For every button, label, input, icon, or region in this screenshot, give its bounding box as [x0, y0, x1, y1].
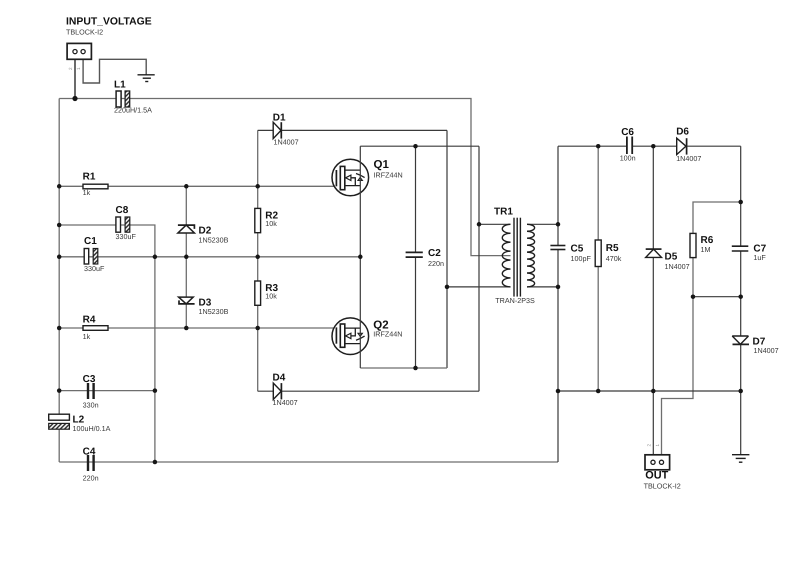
wire D1 row y=130.4	[258, 129, 447, 131]
wire R1 row / Q1 gate row y=186.3	[59, 185, 336, 187]
svg-text:C8: C8	[116, 205, 129, 216]
svg-text:100uH/0.1A: 100uH/0.1A	[73, 424, 111, 433]
wire zener chain vertical x=186.3	[185, 186, 187, 328]
diode D7	[732, 336, 749, 344]
capacitor C8	[116, 217, 130, 232]
svg-text:C4: C4	[83, 446, 96, 457]
junction C4 row / left branch	[153, 460, 158, 465]
wire C8 row y=225 with corner down at x=154.9	[59, 225, 155, 257]
svg-text:1N4007: 1N4007	[274, 138, 299, 147]
svg-text:OUT: OUT	[645, 470, 668, 482]
svg-text:Q1: Q1	[374, 159, 390, 171]
svg-text:1uF: 1uF	[753, 253, 766, 262]
wire right bus x=558 through C5	[557, 146, 559, 462]
inductor L2	[49, 414, 70, 429]
junction TR secondary top	[556, 222, 561, 227]
junction C3 row / left branch	[153, 388, 158, 393]
junction R2 top / R1 row	[255, 184, 260, 189]
svg-text:2: 2	[68, 67, 73, 70]
wire input terminal pin 1 to ground	[83, 54, 146, 83]
svg-text:1k: 1k	[83, 188, 91, 197]
transistor Q2	[332, 257, 369, 368]
wire Q2 source row y=367.2	[360, 367, 447, 369]
svg-text:330n: 330n	[83, 401, 99, 410]
ground input	[138, 75, 155, 82]
junction rail-C8 row	[57, 223, 62, 228]
svg-text:1: 1	[76, 67, 81, 70]
junction R2-R3 / C1 row	[255, 255, 260, 260]
junction D5 top	[651, 144, 656, 149]
diode D3 zener	[179, 297, 195, 304]
wire C4 row y=462 to corner x=558	[59, 461, 558, 463]
resistor R6	[690, 233, 696, 257]
junction C2 top / Q1 drain row	[413, 144, 418, 149]
junction TR primary bottom	[445, 285, 450, 290]
wire ground output stem	[740, 391, 742, 455]
svg-text:1N4007: 1N4007	[273, 398, 298, 407]
terminal block J2 OUT	[645, 455, 670, 470]
svg-text:R4: R4	[83, 314, 96, 325]
wire transformer primary bottom lead	[447, 286, 511, 288]
svg-text:100pF: 100pF	[571, 254, 592, 263]
junction C8 branch / C1 row	[153, 255, 158, 260]
wire top +V rail from left rail corner through L1 to transformer center tap	[59, 99, 510, 256]
svg-text:10k: 10k	[265, 291, 277, 300]
svg-text:C2: C2	[428, 248, 441, 259]
svg-text:1N4007: 1N4007	[754, 346, 779, 355]
wire R6 bottom jog to OUT pin 1	[662, 258, 694, 460]
svg-text:L1: L1	[114, 80, 126, 91]
diode D1	[273, 122, 281, 138]
svg-text:220n: 220n	[428, 259, 444, 268]
junction TR secondary bottom	[556, 285, 561, 290]
svg-text:1N4007: 1N4007	[665, 262, 690, 271]
svg-text:1N5230B: 1N5230B	[199, 307, 229, 316]
diode D5	[646, 249, 662, 257]
svg-text:1N4007: 1N4007	[676, 154, 701, 163]
wire transformer secondary top lead	[527, 223, 558, 225]
wire C1 row y=256.8 to Q1 source	[59, 256, 360, 258]
svg-text:1k: 1k	[83, 332, 91, 341]
svg-text:330uF: 330uF	[116, 232, 137, 241]
svg-text:1M: 1M	[701, 245, 711, 254]
junction D2 top / R1 row	[184, 184, 189, 189]
wire transformer primary top lead	[479, 223, 511, 225]
transformer TR1	[502, 218, 534, 297]
capacitor C7	[732, 246, 749, 251]
svg-text:10k: 10k	[265, 219, 277, 228]
junction C7 bottom / link row	[738, 294, 743, 299]
capacitor C6	[627, 137, 632, 155]
svg-text:470k: 470k	[606, 254, 622, 263]
wire Q1 drain row y=146.2	[360, 145, 479, 147]
wire transformer secondary bottom lead	[527, 286, 558, 288]
junction Q1 source / C1 row	[358, 255, 363, 260]
wire left rail vertical x=59	[58, 99, 60, 463]
capacitor C2	[406, 252, 423, 257]
resistor R5	[595, 240, 601, 267]
junction R3 bottom / R4 row	[255, 326, 260, 331]
resistor R4	[83, 326, 108, 331]
svg-text:1: 1	[655, 444, 660, 447]
diode D6	[677, 138, 687, 154]
svg-text:330uF: 330uF	[84, 264, 105, 273]
junction C2 bottom / Q2 source row	[413, 366, 418, 371]
wire R6 top lead to y=202	[693, 202, 741, 233]
svg-text:D6: D6	[676, 126, 689, 137]
svg-text:TRAN-2P3S: TRAN-2P3S	[495, 296, 535, 305]
svg-text:1N5230B: 1N5230B	[199, 235, 229, 244]
junction D2-D3 / C1 row	[184, 255, 189, 260]
wire R4 row / Q2 gate row y=328	[59, 327, 336, 329]
wire bottom output row y=391	[558, 390, 741, 392]
junction D7 cathode / bottom row	[738, 389, 743, 394]
junction D5 bottom / OUT pin	[651, 389, 656, 394]
capacitor C3	[87, 383, 95, 399]
wire D5 vertical x=653.3 down to OUT pin 2	[652, 146, 654, 460]
svg-text:TR1: TR1	[494, 207, 513, 218]
junction rail-R1 row	[57, 184, 62, 189]
resistor R3	[255, 281, 261, 305]
ground output	[732, 455, 749, 463]
wire bias chain vertical x=257.7 through R2 R3	[257, 130, 259, 391]
wire top output row y=146.2 through C6 and D6	[558, 145, 741, 147]
svg-text:220uH/1.5A: 220uH/1.5A	[114, 106, 152, 115]
junction R6 top / D6 output	[738, 200, 743, 205]
junction input pin2 to rail	[72, 96, 77, 101]
wire R5 vertical x=598.2	[597, 146, 599, 391]
diode D2 zener	[178, 225, 195, 233]
wire cross vertical x=479 from Q1 drain row to D4 row	[478, 146, 480, 391]
capacitor C4	[87, 455, 95, 471]
svg-text:TBLOCK-I2: TBLOCK-I2	[66, 28, 103, 37]
svg-text:D1: D1	[273, 113, 286, 124]
wire D4 row y=389.7	[258, 390, 479, 392]
junction D3 bottom / R4 row	[184, 326, 189, 331]
junction R5 bottom	[596, 389, 601, 394]
diode D4	[273, 383, 281, 399]
junction rail-C3 row	[57, 388, 62, 393]
capacitor C5	[550, 246, 565, 250]
transistor Q1	[332, 146, 369, 257]
wire link row y=296.7	[693, 296, 741, 298]
svg-text:IRFZ44N: IRFZ44N	[373, 330, 402, 339]
svg-text:C6: C6	[621, 127, 634, 138]
svg-text:C1: C1	[84, 236, 97, 247]
junction secondary bus / bottom row	[556, 389, 561, 394]
junction R6 bottom / link row	[691, 294, 696, 299]
terminal block J1 INPUT_VOLTAGE	[67, 43, 91, 59]
wire vertical x=154.9 from C1 row to C4 row	[154, 257, 156, 462]
capacitor C1	[84, 249, 98, 265]
svg-text:D4: D4	[273, 373, 286, 384]
resistor R2	[255, 208, 261, 232]
svg-text:R1: R1	[83, 171, 96, 182]
svg-text:INPUT_VOLTAGE: INPUT_VOLTAGE	[66, 17, 152, 28]
junction rail-C1 row	[57, 255, 62, 260]
svg-text:2: 2	[646, 444, 651, 447]
wire right cross vertical x=447 from D1 to Q2 source row	[446, 130, 448, 368]
svg-text:IRFZ44N: IRFZ44N	[374, 171, 403, 180]
svg-text:C3: C3	[83, 374, 96, 385]
svg-text:TBLOCK-I2: TBLOCK-I2	[644, 481, 681, 490]
wire input terminal pin 2 to rail	[74, 54, 76, 99]
wire C7 D7 vertical x=740.7	[740, 146, 742, 391]
junction TR primary top	[477, 222, 482, 227]
svg-text:220n: 220n	[83, 474, 99, 483]
wire C3 row y=390.6	[59, 390, 155, 392]
svg-text:100n: 100n	[620, 154, 636, 163]
svg-text:R5: R5	[606, 243, 619, 254]
junction R5 top	[596, 144, 601, 149]
junction rail-R4 row	[57, 326, 62, 331]
wire C2 vertical x=415.5	[415, 146, 417, 368]
resistor R1	[83, 184, 108, 189]
inductor L1	[116, 91, 130, 107]
